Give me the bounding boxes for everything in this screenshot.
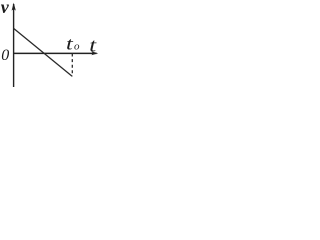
svg-text:0: 0 xyxy=(1,47,9,64)
v axis arrowhead xyxy=(12,3,16,11)
v axis (vertical) xyxy=(13,4,15,87)
svg-text:t: t xyxy=(66,34,74,54)
svg-text:v: v xyxy=(1,0,10,17)
dashed line at t0 xyxy=(71,54,73,77)
sloping v(t) line xyxy=(14,28,73,76)
svg-text:o: o xyxy=(74,41,80,53)
svg-text:t: t xyxy=(89,34,97,56)
t axis arrowhead xyxy=(91,51,98,55)
t axis (horizontal) xyxy=(14,52,97,54)
